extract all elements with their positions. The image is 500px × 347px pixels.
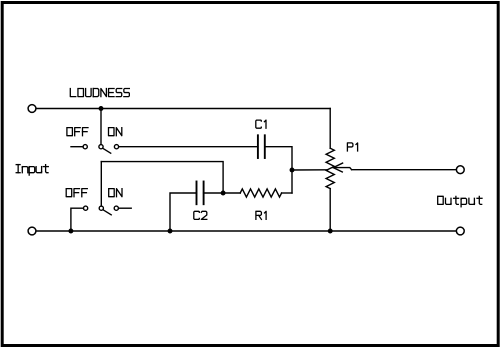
wire P1 bottom lead	[329, 189, 331, 231]
switch S1 ON label	[109, 128, 122, 136]
label P1	[347, 143, 357, 151]
node C2/R1 junction	[221, 191, 226, 196]
label R1	[256, 211, 266, 219]
switch S1 OFF contact	[83, 145, 87, 149]
wire R1 right lead up to node	[282, 192, 292, 194]
terminal input bottom	[28, 227, 36, 235]
node OFF stub to rail	[68, 229, 73, 234]
wire switch1 common drop	[100, 109, 102, 145]
wire bottom rail	[36, 230, 456, 232]
wire C1 right to node	[265, 147, 292, 193]
label C2	[194, 211, 207, 219]
label LOUDNESS	[70, 89, 129, 97]
switch S1 pivot contact	[99, 145, 103, 149]
node P1 to rail	[328, 229, 333, 234]
wire S2 net to C2/R1 junction	[101, 162, 223, 193]
switch S2 ON contact	[114, 206, 118, 210]
terminal output bottom	[456, 227, 464, 235]
wire wiper to output	[352, 169, 457, 171]
node C1/R1/wiper junction	[290, 168, 295, 173]
P1 wiper arrow	[333, 163, 342, 172]
switch S2 OFF contact	[84, 206, 88, 210]
wire P1 top lead	[329, 109, 331, 149]
label Output	[438, 196, 482, 207]
wire S2 ON stub	[119, 207, 132, 209]
wire S2 OFF stub to bottom rail	[71, 208, 84, 231]
wire node to P1 left	[292, 169, 328, 171]
switch S2 arm	[103, 210, 111, 215]
capacitor C1	[258, 135, 265, 158]
wire C2 right to junction	[204, 192, 224, 194]
switch S1 OFF stub	[71, 146, 83, 148]
resistor R1	[240, 189, 281, 197]
wire S1 ON to C1	[119, 146, 258, 148]
switch S2 pivot contact	[99, 206, 103, 210]
switch S2 ON label	[109, 189, 122, 197]
label Input	[16, 165, 48, 176]
wire R1 left lead	[223, 192, 240, 194]
node C2 to rail	[168, 229, 173, 234]
terminal input top	[28, 105, 36, 113]
capacitor C2	[197, 182, 204, 205]
wire switch2 common drop	[100, 162, 102, 206]
wire C2 left to bottom rail	[170, 193, 197, 231]
switch S1 ON contact	[114, 145, 118, 149]
switch S1 OFF label	[67, 128, 88, 136]
potentiometer P1	[326, 148, 334, 188]
node top rail junction	[99, 106, 104, 111]
terminal output top	[456, 166, 464, 174]
label C1	[256, 120, 266, 128]
switch S1 arm	[103, 148, 111, 153]
wire top rail	[36, 108, 330, 110]
switch S2 OFF label	[66, 189, 87, 197]
